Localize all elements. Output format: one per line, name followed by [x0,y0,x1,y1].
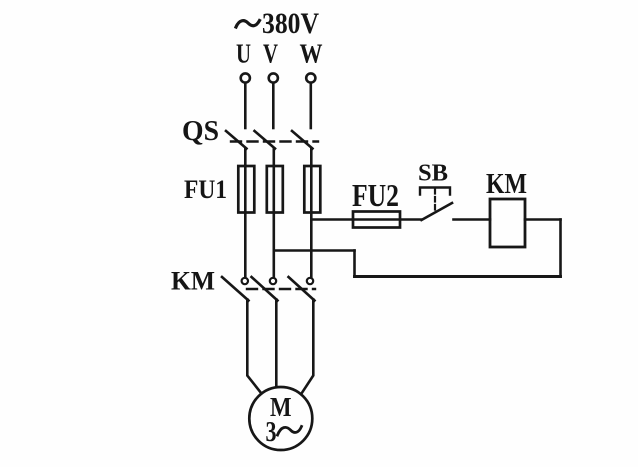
disconnect switch QS pole W blade [292,131,313,149]
svg-text:3: 3 [266,417,277,448]
svg-text:FU2: FU2 [352,177,399,213]
wire KM coil to right riser [525,218,561,221]
wire U: KM contact to motor [247,300,261,394]
fuse FU1 pole V body [267,166,283,213]
label KM (coil) [486,168,527,200]
svg-text:W: W [300,39,323,69]
label FU2 [352,177,399,213]
contactor KM contact V blade [252,277,278,301]
wire bottom return rail [355,275,561,278]
wire W: QS to FU1 [310,149,313,167]
contactor coil KM [490,199,525,247]
wire W: terminal to QS [309,83,312,128]
fuse FU1 pole U body [238,166,254,213]
motor label 3 [266,417,277,448]
wire V: KM contact to motor [275,300,278,389]
contactor KM contact V fixed circle [270,278,276,284]
svg-text:KM: KM [486,168,527,200]
wire SB to KM coil [454,218,491,221]
motor M circle [249,387,312,450]
wire V through fuse [272,166,275,278]
contactor KM contact W fixed circle [307,278,313,284]
svg-text:FU1: FU1 [184,175,227,204]
wire W tap to FU2 [311,218,353,221]
wire U through fuse [244,166,247,278]
pushbutton SB contact blade [422,203,453,220]
svg-text:KM: KM [171,267,215,296]
svg-text:U: U [236,39,251,69]
wire step down [353,251,356,277]
svg-text:SB: SB [418,161,448,187]
label QS [182,116,219,147]
motor label tilde [278,427,302,436]
contactor KM contact U fixed circle [242,278,248,284]
contactor KM contact U blade [222,277,249,301]
pushbutton SB actuator bar [420,188,450,195]
wire V: QS to FU1 [272,149,275,167]
disconnect switch QS pole U blade [226,131,247,149]
motor label M [270,392,292,422]
fuse FU1 pole W body [304,166,320,213]
svg-text:V: V [263,39,278,69]
wire U: QS to FU1 [244,149,247,167]
wire V tap to control return [274,249,355,252]
label SB [418,161,448,187]
label terminal W [300,39,323,69]
KM contacts linkage dashed line [247,288,315,290]
contactor KM contact W blade [289,277,315,301]
terminal U circle [241,73,250,82]
label ~380V supply [262,7,319,40]
svg-text:QS: QS [182,116,219,147]
tilde of ~380V [236,21,260,28]
wire right riser [559,220,562,277]
fuse FU2 body [353,212,400,228]
wire through FU2 [353,218,421,221]
terminal W circle [306,73,315,82]
label terminal V [263,39,278,69]
wire W: KM contact to motor [302,300,314,394]
label FU1 [184,175,227,204]
wire V: terminal to QS [272,83,275,128]
QS linkage dashed line [231,140,318,142]
pushbutton SB plunger dashed link [434,189,436,212]
label KM (main contacts) [171,267,215,296]
wire W through fuse [310,166,313,278]
label terminal U [236,39,251,69]
wire U: terminal to QS [244,83,247,128]
svg-text:380V: 380V [262,7,319,40]
disconnect switch QS pole V blade [255,131,276,149]
terminal V circle [269,73,278,82]
